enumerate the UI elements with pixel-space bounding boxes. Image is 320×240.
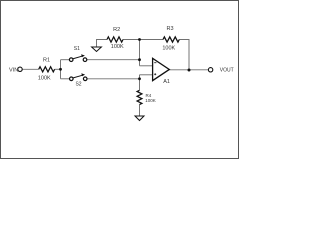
wire split vertical	[60, 60, 62, 79]
switch S1 contact circles	[69, 58, 73, 62]
svg-text:R1: R1	[43, 57, 50, 63]
resistor R4	[137, 90, 142, 104]
ground (bottom, R4)	[135, 116, 144, 121]
svg-text:100K: 100K	[111, 44, 124, 50]
op-amp plus sign	[154, 73, 156, 75]
wire split to S1	[61, 59, 70, 61]
wire node B vertical	[139, 40, 141, 66]
svg-text:A1: A1	[163, 79, 170, 85]
svg-text:R3: R3	[166, 26, 173, 32]
wire S1 to node B	[87, 59, 140, 61]
svg-text:VOUT: VOUT	[220, 67, 234, 73]
VIN terminal	[18, 67, 22, 71]
border frame	[1, 1, 239, 159]
switch S2 contact circles	[70, 77, 74, 81]
wire split to S2	[61, 78, 70, 80]
wire R3 to output	[179, 40, 189, 70]
wire node B to R3	[140, 39, 164, 41]
wire VIN to R1	[22, 68, 39, 70]
wire S2 to node C	[87, 78, 140, 80]
svg-text:S2: S2	[75, 82, 81, 88]
VOUT terminal	[208, 68, 212, 72]
wire R2 to node B	[123, 39, 140, 41]
svg-text:100K: 100K	[162, 46, 175, 52]
resistor R1	[39, 67, 55, 72]
op-amp U1 triangle	[153, 58, 170, 80]
wire op-amp output to VOUT	[169, 69, 208, 71]
node B junction dot (feedback)	[138, 38, 141, 41]
node C junction dot (non-inverting)	[138, 77, 141, 80]
svg-text:100K: 100K	[38, 76, 51, 82]
node D junction dot (output)	[188, 69, 191, 72]
resistor R2	[107, 37, 123, 42]
wire jog to non-inverting input	[140, 74, 153, 76]
wire R1 to split node	[55, 68, 61, 70]
wire R4 to ground	[139, 105, 141, 116]
svg-text:100K: 100K	[145, 98, 156, 103]
op-amp minus sign	[154, 62, 156, 64]
node A junction dot	[59, 68, 62, 71]
node B junction dot (inverting)	[138, 58, 141, 61]
switch S2 lever	[73, 75, 83, 78]
ground (top left, R2)	[92, 47, 102, 52]
svg-text:R2: R2	[113, 27, 120, 33]
wire ground to R2	[97, 40, 108, 48]
resistor R3	[163, 37, 179, 42]
svg-text:S1: S1	[74, 46, 80, 52]
wire node C vertical	[139, 75, 141, 91]
wire jog to inverting input	[140, 65, 153, 67]
svg-text:VIN: VIN	[9, 67, 18, 73]
switch S1 lever	[73, 56, 82, 59]
